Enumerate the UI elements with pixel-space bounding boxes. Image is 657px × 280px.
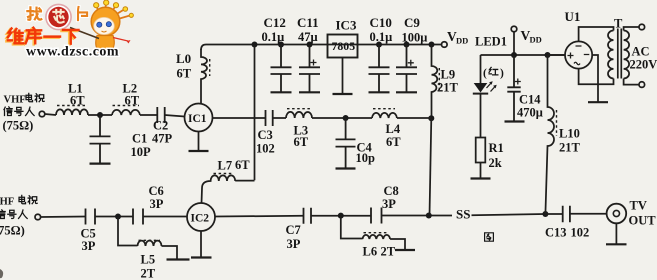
UHF input terminal xyxy=(0,195,41,237)
wire terminal to L1 xyxy=(45,114,56,115)
ground C4 xyxy=(336,167,356,169)
capacitor C13 xyxy=(545,206,589,240)
label (red) xyxy=(489,67,498,75)
ground L5 xyxy=(167,258,190,260)
label 图 xyxy=(485,233,494,241)
capacitor C4 xyxy=(336,118,376,169)
svg-text:6T: 6T xyxy=(294,135,309,149)
svg-text:(: ( xyxy=(483,68,487,80)
svg-text:L4: L4 xyxy=(386,122,401,136)
svg-text:L6: L6 xyxy=(363,245,378,259)
svg-text:): ) xyxy=(500,68,504,80)
capacitor C14 (electrolytic) xyxy=(507,52,550,122)
svg-text:UHF: UHF xyxy=(0,197,14,208)
svg-text:DD: DD xyxy=(530,35,542,45)
ground IC1 xyxy=(189,132,209,152)
svg-text:2k: 2k xyxy=(489,156,502,170)
watermark www.dzsc.com xyxy=(26,45,119,60)
svg-text:DD: DD xyxy=(456,36,468,46)
svg-text:IC2: IC2 xyxy=(191,213,210,225)
capacitor C2 xyxy=(152,107,173,146)
svg-text:L7: L7 xyxy=(218,159,233,173)
wire SS to C13 node xyxy=(472,214,546,215)
svg-text:(75Ω): (75Ω) xyxy=(0,224,25,238)
ground U1 xyxy=(588,101,608,103)
ground IC3 xyxy=(333,93,353,95)
capacitor C3 xyxy=(256,110,275,156)
wire IC2 to C7 xyxy=(215,215,304,218)
LED branch corner / power wire xyxy=(481,54,566,56)
svg-text:220V: 220V xyxy=(630,58,657,72)
capacitor C9 (electrolytic) xyxy=(396,15,427,92)
svg-text:C11: C11 xyxy=(297,15,319,30)
VHF input terminal xyxy=(3,93,45,132)
wire C13 to TV OUT xyxy=(570,213,607,215)
svg-text:C7: C7 xyxy=(286,223,301,237)
ground C1 xyxy=(90,163,111,165)
resistor R1 xyxy=(476,138,504,179)
inductor L10 xyxy=(545,55,580,214)
capacitor C1 xyxy=(90,115,152,164)
amplifier module IC2 xyxy=(187,203,215,231)
capacitor C10 xyxy=(369,15,393,92)
svg-text:LED1: LED1 xyxy=(475,35,507,49)
svg-text:0.1μ: 0.1μ xyxy=(262,30,285,44)
watermark 维库一下 xyxy=(6,28,78,45)
junction rail/L9 xyxy=(429,42,435,48)
svg-text:IC3: IC3 xyxy=(336,18,357,33)
inductor L6 xyxy=(341,216,405,259)
svg-text:470μ: 470μ xyxy=(517,106,543,120)
svg-text:U1: U1 xyxy=(565,9,581,24)
svg-text:OUT: OUT xyxy=(629,214,657,228)
svg-text:6T: 6T xyxy=(386,135,401,149)
svg-text:6T: 6T xyxy=(125,94,140,108)
svg-text:C2: C2 xyxy=(153,119,168,133)
svg-text:C9: C9 xyxy=(404,15,420,30)
wire IC1 to C3 xyxy=(213,117,266,119)
node C7/C8/L6 xyxy=(311,213,371,219)
svg-text:C12: C12 xyxy=(264,15,286,30)
svg-text:L0: L0 xyxy=(176,51,191,66)
capacitor C11 (electrolytic) xyxy=(297,15,320,92)
capacitor C6 xyxy=(133,184,164,225)
LED1 xyxy=(473,35,507,94)
svg-text:6T: 6T xyxy=(70,94,85,108)
wire L4 to node xyxy=(397,117,431,119)
svg-text:C6: C6 xyxy=(149,184,164,198)
wire U1 right to ground xyxy=(592,55,598,102)
svg-text:(75Ω): (75Ω) xyxy=(3,119,34,133)
node L3/L4/C4 xyxy=(312,115,372,121)
wire vertical x=254.5 rail to L7 xyxy=(254,45,256,181)
capacitor C7 xyxy=(286,208,312,251)
ground C12 xyxy=(271,91,292,93)
svg-text:3P: 3P xyxy=(382,197,396,211)
svg-text:21T: 21T xyxy=(559,141,581,155)
bridge rectifier U1 xyxy=(548,9,592,69)
capacitor C5 xyxy=(81,209,96,254)
watermark mascot xyxy=(70,0,133,56)
node L1/L2/C1 xyxy=(88,112,112,118)
wire C8 to SS node xyxy=(382,213,453,219)
svg-text:T: T xyxy=(614,17,623,31)
svg-text:L9: L9 xyxy=(441,68,456,82)
svg-text:102: 102 xyxy=(571,226,590,240)
svg-text:SS: SS xyxy=(456,207,470,222)
inductor L3 xyxy=(286,109,312,149)
svg-text:7805: 7805 xyxy=(332,39,356,53)
scan smudge bottom-left xyxy=(0,269,3,278)
capacitor C8 xyxy=(371,184,399,224)
svg-text:R1: R1 xyxy=(489,141,504,155)
svg-text:VHF: VHF xyxy=(4,95,26,106)
svg-text:C3: C3 xyxy=(258,128,273,142)
svg-text:10P: 10P xyxy=(131,145,152,159)
svg-text:6T: 6T xyxy=(235,158,250,172)
ground C11 xyxy=(299,91,320,93)
wire C3 to L3 xyxy=(273,117,286,119)
svg-text:AC: AC xyxy=(632,45,650,59)
node C5/C6/L5 xyxy=(95,214,133,220)
wire U1 top to transformer xyxy=(579,27,614,41)
wire C6 to IC2 xyxy=(143,216,187,218)
AC terminals xyxy=(624,24,657,87)
junction on rail above C3 column xyxy=(252,42,258,48)
svg-text:47P: 47P xyxy=(152,132,173,146)
inductor L4 xyxy=(372,109,401,149)
wire terminal to C5 xyxy=(41,216,86,219)
svg-text:6T: 6T xyxy=(177,67,192,81)
ground C10 xyxy=(369,91,390,93)
svg-text:TV: TV xyxy=(630,199,647,213)
voltage regulator IC3 7805 xyxy=(328,18,358,95)
wire U1 bottom bus xyxy=(579,69,614,85)
connector TV OUT xyxy=(607,199,657,228)
ground IC2 xyxy=(191,231,212,258)
svg-text:3P: 3P xyxy=(287,237,301,251)
wire C2 to IC1 xyxy=(165,115,185,117)
inductor L5 xyxy=(118,217,177,280)
ground TV OUT xyxy=(606,223,627,244)
svg-text:2T: 2T xyxy=(141,267,156,280)
svg-text:C10: C10 xyxy=(370,15,392,30)
ground L6 xyxy=(395,249,415,251)
svg-text:www.dzsc.com: www.dzsc.com xyxy=(26,45,119,60)
svg-text:L10: L10 xyxy=(559,127,580,141)
wire LED to R1 xyxy=(480,94,482,138)
svg-text:3P: 3P xyxy=(82,239,96,253)
svg-text:C1: C1 xyxy=(132,132,147,146)
node VDD2 terminal xyxy=(511,26,542,58)
ground C9 xyxy=(396,91,417,93)
svg-text:21T: 21T xyxy=(437,81,459,95)
top supply rail xyxy=(201,45,442,51)
svg-text:L5: L5 xyxy=(141,253,156,267)
svg-text:C8: C8 xyxy=(384,184,399,198)
capacitor C12 xyxy=(262,15,292,92)
svg-text:47μ: 47μ xyxy=(298,30,318,44)
ground C14 xyxy=(505,120,525,122)
node VDD (rail end terminal) xyxy=(442,29,469,47)
inductor L1 xyxy=(56,82,88,116)
svg-text:2T: 2T xyxy=(381,245,396,259)
node SS xyxy=(456,207,470,222)
svg-text:0.1μ: 0.1μ xyxy=(370,30,393,44)
svg-text:C14: C14 xyxy=(519,93,541,107)
inductor L9 xyxy=(432,45,459,119)
svg-text:C13: C13 xyxy=(545,226,567,240)
svg-text:3P: 3P xyxy=(150,197,164,211)
svg-text:IC1: IC1 xyxy=(188,113,207,125)
svg-text:10p: 10p xyxy=(356,151,376,165)
transformer T xyxy=(608,17,629,79)
amplifier module IC1 xyxy=(185,104,213,132)
svg-text:102: 102 xyxy=(256,142,275,156)
ground R1 xyxy=(471,177,491,179)
inductor L0 xyxy=(176,49,210,104)
wire L2 to C2 xyxy=(140,114,157,116)
watermark 找芯片 logo xyxy=(27,4,87,29)
inductor L7 xyxy=(202,158,255,203)
svg-text:100μ: 100μ xyxy=(402,31,428,45)
inductor L2 xyxy=(112,82,140,116)
wire L9 node down to SS line xyxy=(428,115,434,215)
junction C13/L10 xyxy=(542,211,548,217)
